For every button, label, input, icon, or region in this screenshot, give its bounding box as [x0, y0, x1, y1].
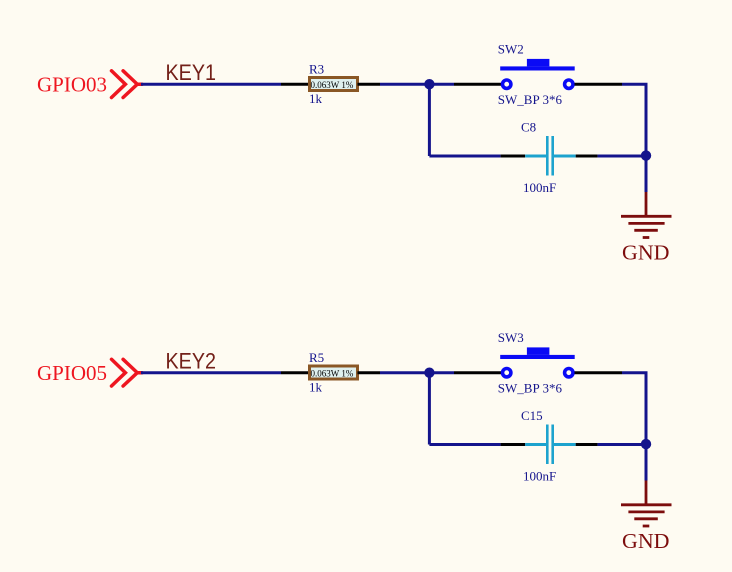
- svg-text:SW_BP 3*6: SW_BP 3*6: [498, 92, 563, 107]
- wire junction down to GND: [645, 156, 648, 192]
- svg-text:KEY2: KEY2: [166, 349, 217, 374]
- designator C15: [521, 408, 543, 423]
- designator R5: [309, 350, 324, 365]
- value 100nF: [523, 469, 556, 484]
- junction node C: [424, 368, 434, 378]
- svg-text:0.063W 1%: 0.063W 1%: [311, 80, 354, 90]
- value 100nF: [523, 180, 556, 195]
- svg-text:GPIO05: GPIO05: [37, 361, 107, 385]
- wire SW2 to right vertical: [622, 84, 646, 155]
- wire junction down to GND: [645, 444, 648, 480]
- resistor R5 body: [310, 366, 358, 379]
- ground GND symbol: [621, 481, 672, 527]
- resistor R5 pin 2: [358, 371, 381, 374]
- svg-text:0.063W 1%: 0.063W 1%: [311, 369, 354, 379]
- net label KEY1: [166, 60, 217, 85]
- wire C8 branch left: [429, 155, 500, 158]
- wire R3 to SW2: [380, 83, 454, 86]
- svg-text:KEY1: KEY1: [166, 60, 217, 85]
- svg-text:100nF: 100nF: [523, 180, 556, 195]
- wire C15 to right vertical: [598, 443, 646, 446]
- svg-text:C15: C15: [521, 408, 543, 423]
- junction node D: [641, 439, 651, 449]
- port GPIO05 label: [37, 361, 107, 385]
- wire C8 to right vertical: [598, 155, 646, 158]
- switch SW2 pin 2: [575, 83, 623, 86]
- designator SW3: [498, 330, 524, 345]
- wire SW3 to right vertical: [622, 373, 646, 444]
- wire port to R5: [141, 371, 281, 374]
- switch SW3 pin 1: [454, 371, 501, 374]
- port GPIO05 chevron symbol: [112, 359, 143, 386]
- designator R3: [309, 62, 324, 77]
- svg-text:R3: R3: [309, 62, 324, 77]
- svg-text:GND: GND: [622, 529, 670, 553]
- resistor R5 pin 1: [281, 371, 309, 374]
- wire port to R3: [141, 83, 281, 86]
- value 1k: [309, 91, 323, 106]
- svg-text:GPIO03: GPIO03: [37, 73, 107, 97]
- switch SW3 pin 2: [575, 371, 623, 374]
- net label KEY2: [166, 349, 217, 374]
- ground GND symbol: [621, 192, 672, 238]
- wire C15 branch left: [429, 443, 500, 446]
- capacitor C15 pin 2: [554, 443, 598, 446]
- ground GND label: [622, 529, 670, 553]
- switch SW3 symbol: [500, 347, 575, 377]
- value 1k: [309, 379, 323, 394]
- port GPIO03 label: [37, 73, 107, 97]
- svg-text:SW3: SW3: [498, 330, 524, 345]
- designator C8: [521, 119, 536, 134]
- svg-text:C8: C8: [521, 119, 536, 134]
- capacitor C8 plates: [547, 136, 552, 176]
- wire junction down to C8 branch: [428, 84, 431, 156]
- svg-text:100nF: 100nF: [523, 469, 556, 484]
- switch SW2 symbol: [500, 59, 575, 89]
- switch SW2 pin 1: [454, 83, 501, 86]
- svg-text:1k: 1k: [309, 91, 323, 106]
- svg-text:SW2: SW2: [498, 41, 524, 56]
- capacitor C15 plates: [547, 425, 552, 465]
- value SW_BP 3*6: [498, 92, 563, 107]
- wire R5 to SW3: [380, 371, 454, 374]
- svg-text:GND: GND: [622, 240, 670, 264]
- svg-text:SW_BP 3*6: SW_BP 3*6: [498, 380, 563, 395]
- capacitor C8 pin 1: [501, 155, 546, 158]
- port GPIO03 chevron symbol: [112, 71, 143, 98]
- capacitor C8 pin 2: [554, 155, 598, 158]
- junction node A: [424, 79, 434, 89]
- value SW_BP 3*6: [498, 380, 563, 395]
- junction node B: [641, 150, 651, 160]
- svg-text:1k: 1k: [309, 379, 323, 394]
- resistor R3 pin 2: [358, 83, 381, 86]
- designator SW2: [498, 41, 524, 56]
- svg-text:R5: R5: [309, 350, 324, 365]
- wire junction down to C15 branch: [428, 373, 431, 445]
- resistor R3 pin 1: [281, 83, 309, 86]
- resistor R3 body: [310, 78, 358, 91]
- capacitor C15 pin 1: [501, 443, 546, 446]
- ground GND label: [622, 240, 670, 264]
